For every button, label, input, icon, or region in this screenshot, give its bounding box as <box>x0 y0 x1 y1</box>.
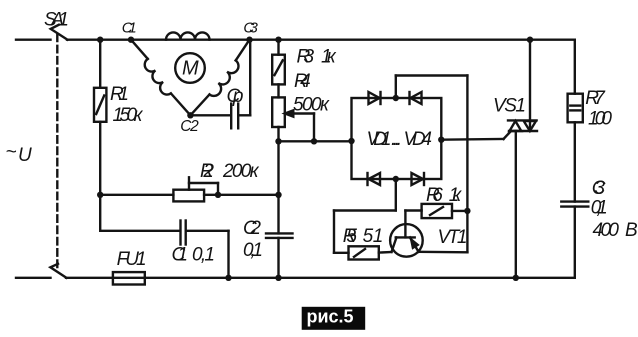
svg-text:1к: 1к <box>321 47 337 68</box>
svg-text:R4: R4 <box>294 71 311 92</box>
svg-text:M: M <box>182 58 199 80</box>
svg-text:C1: C1 <box>122 20 137 37</box>
svg-text:0,1: 0,1 <box>243 240 263 261</box>
svg-text:R2: R2 <box>200 161 214 182</box>
svg-text:рис.5: рис.5 <box>307 307 354 327</box>
svg-text:VD4: VD4 <box>404 129 433 150</box>
svg-text:100: 100 <box>588 109 612 130</box>
svg-text:C3: C3 <box>592 178 606 199</box>
svg-text:....: .... <box>391 129 402 150</box>
svg-text:R3: R3 <box>297 47 315 68</box>
svg-text:200к: 200к <box>222 161 260 182</box>
svg-text:500к: 500к <box>293 95 330 116</box>
svg-text:VT1: VT1 <box>438 227 468 248</box>
svg-text:C1: C1 <box>172 245 189 266</box>
svg-text:C3: C3 <box>243 20 258 37</box>
svg-text:R5: R5 <box>343 226 358 247</box>
svg-text:U: U <box>18 145 32 166</box>
svg-text:FU1: FU1 <box>117 249 147 270</box>
svg-text:C2: C2 <box>243 218 261 239</box>
svg-text:150к: 150к <box>113 105 144 126</box>
svg-text:VS1: VS1 <box>493 96 526 117</box>
svg-text:Cp: Cp <box>227 86 244 107</box>
svg-text:C2: C2 <box>180 118 199 135</box>
svg-text:В: В <box>625 220 638 241</box>
svg-text:SA1: SA1 <box>44 10 69 31</box>
svg-text:400: 400 <box>593 220 620 241</box>
svg-text:VD1: VD1 <box>367 129 392 150</box>
svg-text:R7: R7 <box>585 88 606 109</box>
svg-text:R1: R1 <box>110 84 129 105</box>
svg-text:0,1: 0,1 <box>591 198 608 219</box>
svg-text:R6: R6 <box>426 185 443 206</box>
svg-text:0,1: 0,1 <box>192 245 215 266</box>
svg-text:~: ~ <box>6 142 17 163</box>
svg-text:1к: 1к <box>449 185 463 206</box>
svg-text:51: 51 <box>363 226 384 247</box>
